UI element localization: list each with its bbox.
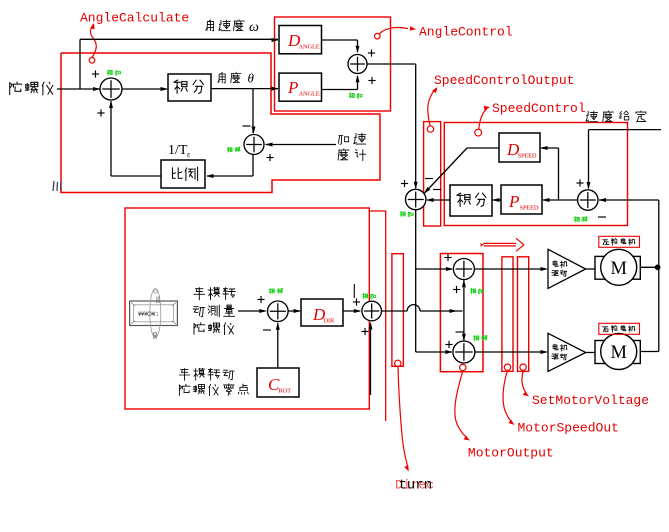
- svg-text:¥¥¥O¥□: ¥¥¥O¥□: [138, 312, 159, 318]
- svg-text:P: P: [508, 192, 519, 211]
- svg-text:AngleControl: AngleControl: [419, 25, 513, 40]
- svg-text:ANGLE: ANGLE: [299, 91, 320, 98]
- svg-text:OS: OS: [151, 332, 157, 340]
- svg-text:SpeedControlOutput: SpeedControlOutput: [434, 73, 574, 88]
- svg-text:turn: turn: [399, 478, 433, 494]
- svg-text:ROT: ROT: [279, 388, 292, 395]
- svg-text:MotorOutput: MotorOutput: [468, 446, 554, 461]
- svg-text:M: M: [610, 259, 626, 279]
- svg-text:ω: ω: [249, 20, 259, 35]
- svg-text:ANGLE: ANGLE: [299, 44, 320, 51]
- svg-text:AngleCalculate: AngleCalculate: [80, 11, 189, 26]
- svg-text:DIR: DIR: [324, 318, 335, 325]
- svg-text:P: P: [287, 78, 298, 97]
- svg-text:θ: θ: [248, 71, 255, 86]
- svg-text:MotorSpeedOut: MotorSpeedOut: [518, 421, 619, 436]
- svg-text:SetMotorVoltage: SetMotorVoltage: [532, 393, 649, 408]
- svg-text:SpeedControl: SpeedControl: [492, 101, 586, 116]
- svg-text:SPEED: SPEED: [520, 205, 539, 212]
- svg-text:SPEED: SPEED: [518, 153, 537, 160]
- svg-text:M: M: [610, 343, 626, 363]
- svg-text:SO: SO: [154, 296, 160, 303]
- svg-text:1/T: 1/T: [168, 143, 188, 158]
